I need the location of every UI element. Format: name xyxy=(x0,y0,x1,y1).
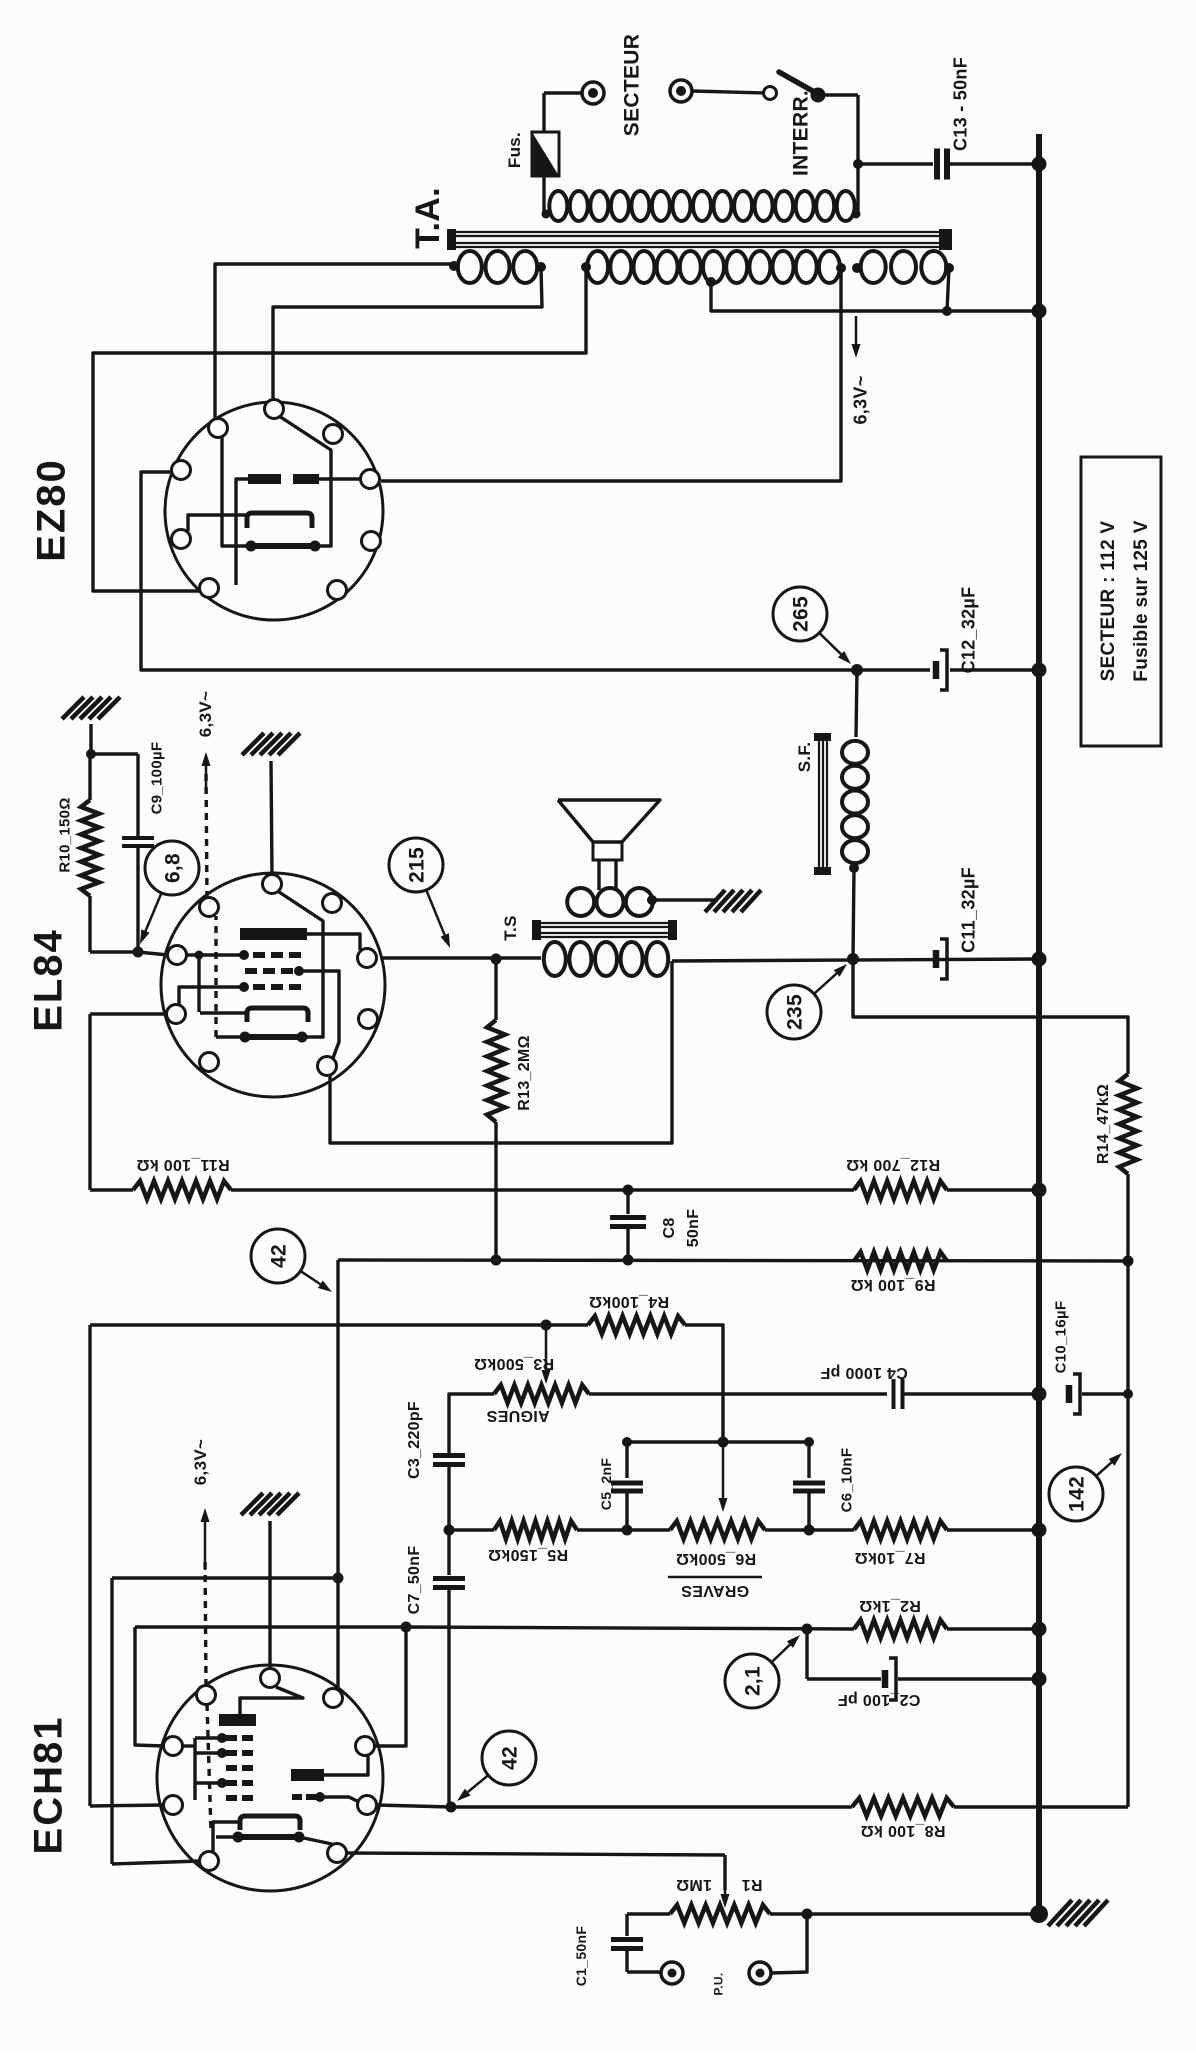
svg-text:R10_150Ω: R10_150Ω xyxy=(56,797,73,872)
svg-text:215: 215 xyxy=(406,847,429,883)
svg-text:50nF: 50nF xyxy=(685,1209,702,1248)
svg-text:R5_150kΩ: R5_150kΩ xyxy=(488,1546,568,1563)
svg-text:C13 - 50nF: C13 - 50nF xyxy=(950,57,970,151)
svg-text:P.U.: P.U. xyxy=(711,1973,725,1996)
svg-text:C11_32µF: C11_32µF xyxy=(958,867,978,953)
svg-text:R2_1kΩ: R2_1kΩ xyxy=(859,1597,921,1614)
svg-text:INTERR.: INTERR. xyxy=(790,90,813,176)
svg-text:2,1: 2,1 xyxy=(742,1666,765,1696)
svg-text:R12_700 kΩ: R12_700 kΩ xyxy=(846,1156,940,1173)
svg-text:C12_32µF: C12_32µF xyxy=(958,587,978,674)
svg-text:C10_16µF: C10_16µF xyxy=(1052,1301,1069,1374)
svg-text:EL84: EL84 xyxy=(26,928,70,1032)
svg-text:6,3V~: 6,3V~ xyxy=(191,1439,210,1485)
svg-text:R14_47kΩ: R14_47kΩ xyxy=(1095,1084,1112,1164)
svg-text:R6_500kΩ: R6_500kΩ xyxy=(676,1550,756,1567)
svg-text:235: 235 xyxy=(784,994,807,1030)
svg-text:C7_50nF: C7_50nF xyxy=(406,1546,423,1615)
svg-text:T.A.: T.A. xyxy=(409,187,447,249)
svg-text:1MΩ: 1MΩ xyxy=(676,1876,712,1893)
svg-text:C8: C8 xyxy=(661,1217,678,1238)
svg-text:ECH81: ECH81 xyxy=(26,1716,70,1855)
svg-text:AIGUES: AIGUES xyxy=(486,1407,549,1424)
svg-text:GRAVES: GRAVES xyxy=(681,1582,749,1599)
svg-text:42: 42 xyxy=(268,1244,291,1268)
svg-text:R8_100 kΩ: R8_100 kΩ xyxy=(861,1822,946,1839)
svg-text:6,3V~: 6,3V~ xyxy=(850,375,870,424)
svg-text:T.S: T.S xyxy=(501,915,520,940)
svg-text:42: 42 xyxy=(499,1746,522,1770)
svg-text:Fus.: Fus. xyxy=(505,132,524,168)
svg-text:C5_2nF: C5_2nF xyxy=(598,1458,614,1511)
svg-text:C1_50nF: C1_50nF xyxy=(573,1926,589,1987)
svg-text:R9_100 kΩ: R9_100 kΩ xyxy=(851,1276,936,1293)
svg-text:C9_100µF: C9_100µF xyxy=(148,742,165,815)
svg-text:6,3V~: 6,3V~ xyxy=(196,691,215,737)
svg-text:EZ80: EZ80 xyxy=(29,458,73,562)
svg-text:C3_220pF: C3_220pF xyxy=(406,1401,423,1479)
svg-text:Fusible sur 125 V: Fusible sur 125 V xyxy=(1131,520,1152,681)
svg-text:C2_100 pF: C2_100 pF xyxy=(838,1691,921,1708)
svg-text:R1: R1 xyxy=(741,1876,762,1893)
svg-text:C6_10nF: C6_10nF xyxy=(838,1448,855,1513)
svg-text:142: 142 xyxy=(1066,1476,1089,1512)
svg-text:R7_10kΩ: R7_10kΩ xyxy=(855,1549,926,1566)
svg-text:C4 1000 pF: C4 1000 pF xyxy=(820,1364,907,1381)
svg-text:265: 265 xyxy=(790,596,813,632)
svg-text:R3_500kΩ: R3_500kΩ xyxy=(474,1355,554,1372)
svg-text:R11_100 kΩ: R11_100 kΩ xyxy=(136,1156,229,1173)
svg-text:S.F.: S.F. xyxy=(795,742,814,773)
svg-text:R4_100kΩ: R4_100kΩ xyxy=(589,1293,669,1310)
svg-text:6,8: 6,8 xyxy=(162,853,185,883)
svg-text:SECTEUR: SECTEUR xyxy=(621,34,644,136)
svg-text:SECTEUR : 112 V: SECTEUR : 112 V xyxy=(1098,521,1119,682)
svg-text:R13_2MΩ: R13_2MΩ xyxy=(516,1035,533,1110)
